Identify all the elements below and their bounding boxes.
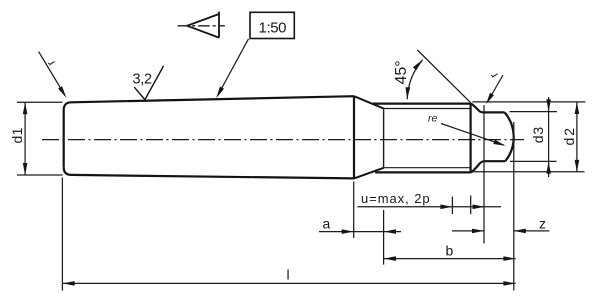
svg-text:b: b <box>446 243 454 259</box>
45 deg arc arrow bottom <box>406 87 411 99</box>
dimension d3 line <box>548 97 550 177</box>
dimension b line <box>384 258 516 260</box>
45 deg arc arrow top <box>413 60 423 71</box>
svg-text:r: r <box>487 70 501 81</box>
dimension d2 extension line bottom <box>471 171 585 173</box>
dimension d3 arrow bottom <box>546 162 551 174</box>
svg-text:a: a <box>323 216 331 232</box>
extension tick thread end <box>470 195 472 214</box>
dimension d1 line <box>24 102 26 175</box>
extension line button start <box>483 105 485 244</box>
pin tapered body outline <box>64 96 354 178</box>
taper symbol centerline <box>178 25 225 27</box>
thread runout boundary vertical <box>383 109 385 168</box>
dimension l arrow right <box>503 281 515 286</box>
dimension b arrow right <box>503 256 515 261</box>
extension line pin left end <box>61 178 63 291</box>
dimension l line <box>62 282 515 284</box>
dimension d2 arrow bottom <box>575 160 580 172</box>
dimension a line <box>319 231 401 233</box>
dimension z arrow right <box>514 229 526 234</box>
dimension d3 extension line bottom <box>510 160 557 162</box>
svg-text:z: z <box>539 215 546 231</box>
svg-text:d2: d2 <box>561 126 577 146</box>
pin left rounded corners <box>64 102 72 175</box>
thread major diameter line top <box>373 102 471 104</box>
re leader line <box>441 124 504 146</box>
end button bottom edge <box>486 160 506 162</box>
extension line thread start <box>383 210 385 265</box>
thread major diameter line bottom <box>375 171 470 173</box>
thread minor diameter line bottom <box>384 167 471 169</box>
svg-text:d3: d3 <box>530 126 546 143</box>
svg-text:1:50: 1:50 <box>259 19 287 36</box>
dimension u line <box>358 206 502 208</box>
dimension z arrow left <box>472 229 484 234</box>
re leader arrow <box>493 140 505 146</box>
spherical end arc <box>505 112 514 161</box>
thread end vertical <box>470 103 472 173</box>
dimension d2 extension line top <box>472 101 585 103</box>
neck fillet bottom <box>471 161 486 172</box>
dimension a arrow right <box>384 229 396 234</box>
end button top edge <box>484 111 505 113</box>
thread runout slope bottom <box>354 168 384 179</box>
svg-text:u=max, 2p: u=max, 2p <box>361 191 431 206</box>
radius label r left leader <box>39 52 65 96</box>
dimension z line right <box>514 230 550 232</box>
extension line pin end <box>513 122 515 290</box>
radius label r right arrow <box>486 93 494 105</box>
dimension u arrow 2 <box>473 205 485 210</box>
neck fillet top <box>471 104 484 113</box>
pin body main centerline <box>42 139 524 141</box>
dimension a arrow left <box>342 229 354 234</box>
45 deg dimension arc <box>407 60 422 100</box>
taper symbol triangle <box>187 12 219 38</box>
extension tick u right <box>451 197 453 215</box>
svg-text:d1: d1 <box>9 127 25 143</box>
taper box leader line <box>218 39 249 95</box>
thread runout slope top <box>354 96 384 108</box>
dimension d3 extension line top <box>510 111 558 113</box>
svg-text:re: re <box>428 113 437 125</box>
dimension d1 arrow down <box>23 163 28 175</box>
dimension d3 arrow top <box>546 99 551 111</box>
dimension d2 arrow top <box>575 102 580 114</box>
svg-text:45°: 45° <box>393 60 410 84</box>
dimension d1 extension line bottom <box>17 174 63 176</box>
svg-text:l: l <box>287 267 290 283</box>
dimension d1 extension line top <box>17 101 63 103</box>
dimension b arrow left <box>384 256 396 261</box>
dimension u arrow 1 <box>440 205 452 210</box>
dimension z line left <box>452 230 484 232</box>
taper ratio box 1:50 <box>250 12 294 38</box>
thread minor diameter line top <box>384 108 471 110</box>
extension line taper end (a left) <box>353 182 355 239</box>
taper box leader arrow <box>216 87 224 99</box>
svg-text:3,2: 3,2 <box>133 72 152 88</box>
surface roughness symbol 3,2 <box>134 66 163 100</box>
dimension d2 line <box>576 102 578 172</box>
dimension l arrow left <box>63 281 75 286</box>
dimension d1 arrow up <box>23 102 28 114</box>
chamfer 45 deg leader line <box>417 50 470 102</box>
radius label r right leader <box>488 75 504 102</box>
radius label r left arrow <box>58 86 66 98</box>
